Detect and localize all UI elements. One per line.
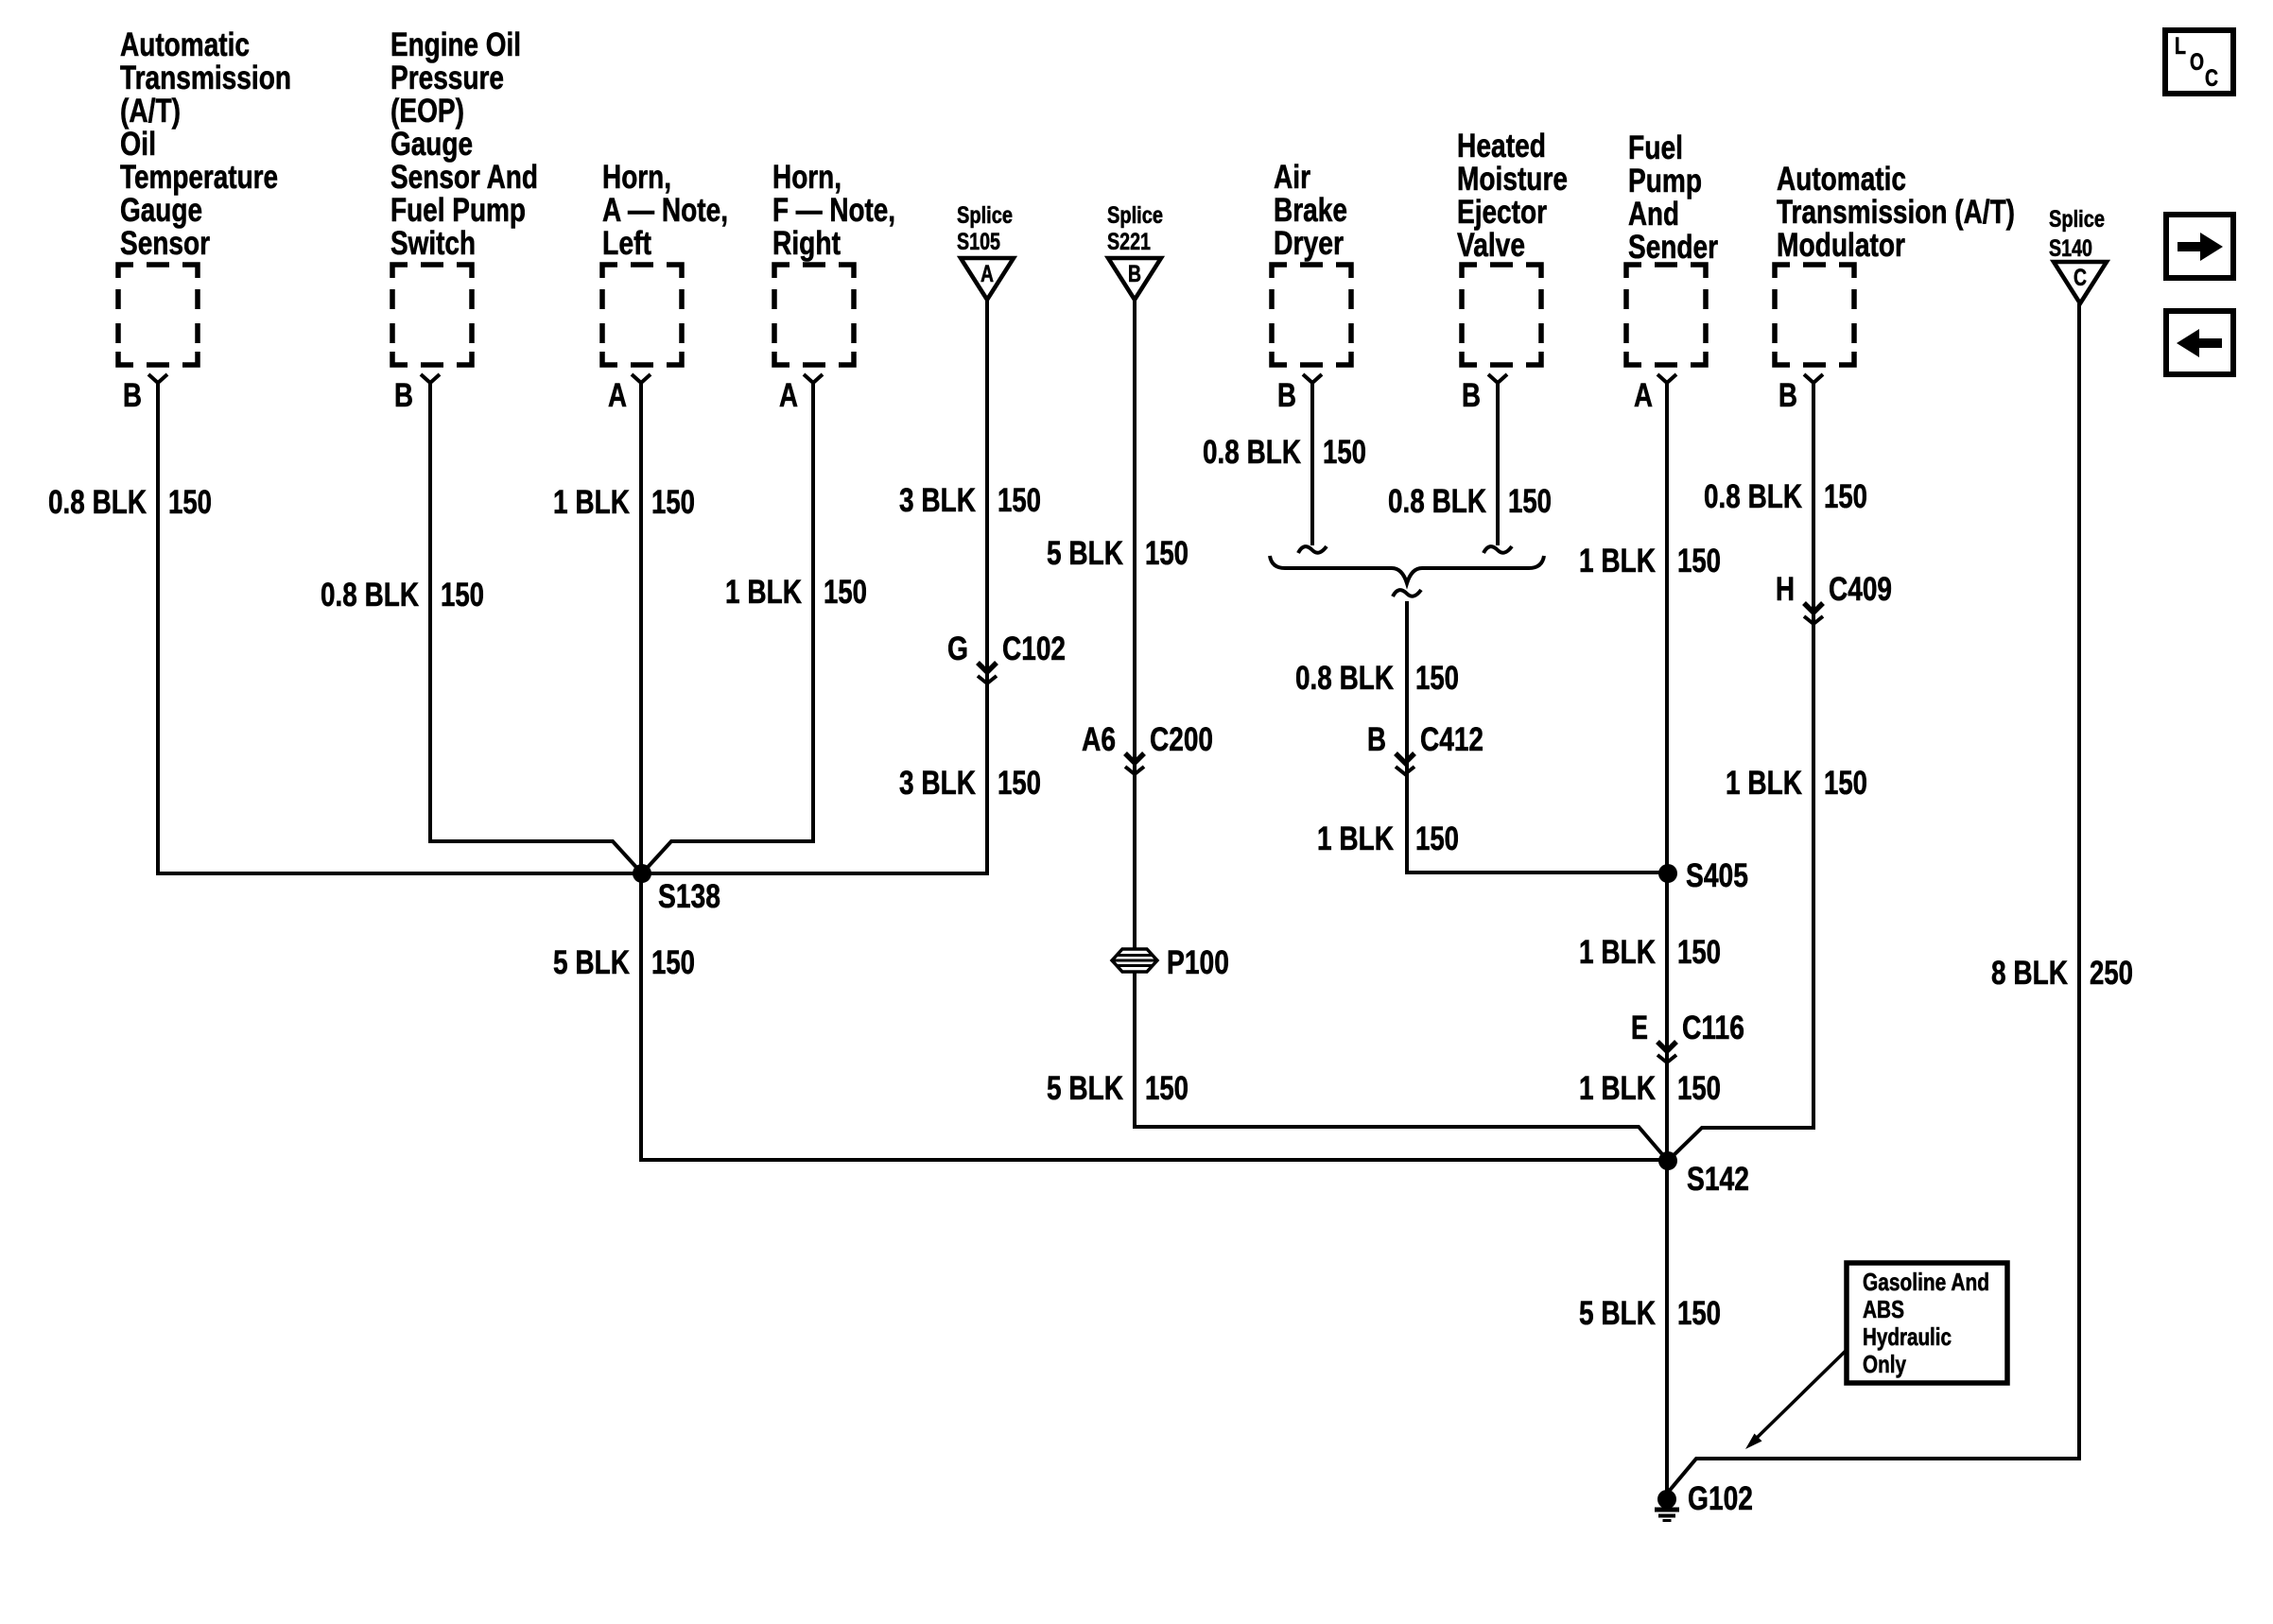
- svg-text:0.8 BLK: 0.8 BLK: [1388, 483, 1486, 520]
- svg-text:Splice: Splice: [2049, 206, 2105, 233]
- svg-text:150: 150: [1824, 765, 1867, 802]
- svg-text:150: 150: [441, 577, 484, 613]
- svg-text:Switch: Switch: [390, 225, 476, 262]
- wire label 5 BLK 150 (S221 lower): [1047, 1070, 1189, 1107]
- svg-text:Engine Oil: Engine Oil: [390, 26, 521, 63]
- svg-text:C: C: [2073, 265, 2087, 291]
- wire label 1 BLK 150 (below S405): [1579, 934, 1721, 971]
- svg-text:A: A: [980, 261, 994, 287]
- svg-text:C102: C102: [1002, 631, 1066, 667]
- component box: heated moisture ejector valve: [1462, 265, 1541, 365]
- svg-text:Gauge: Gauge: [120, 192, 202, 229]
- svg-text:Horn,: Horn,: [772, 159, 842, 196]
- svg-text:And: And: [1628, 196, 1679, 233]
- tilde break at moisture ejector valve wire end: [1484, 546, 1512, 553]
- pin terminal col 1: [148, 374, 167, 383]
- svg-text:G102: G102: [1688, 1480, 1753, 1517]
- wire label 1 BLK 150 (col4): [725, 574, 867, 611]
- svg-text:150: 150: [1824, 478, 1867, 515]
- svg-text:150: 150: [998, 482, 1041, 519]
- svg-text:Sensor And: Sensor And: [390, 159, 538, 196]
- svg-text:B: B: [1128, 261, 1141, 287]
- wire: A/T oil temp sensor ground to S138 and up to splice S105: [158, 300, 987, 873]
- component box: A/T oil temperature gauge sensor: [118, 265, 198, 365]
- svg-text:150: 150: [1677, 934, 1721, 971]
- wire: moisture ejector valve ground stub: [1496, 383, 1500, 545]
- splice S105 triangle: [961, 258, 1014, 300]
- svg-text:150: 150: [1323, 434, 1366, 471]
- wire label 0.8 BLK 150 (col2): [321, 577, 484, 613]
- svg-text:S140: S140: [2049, 235, 2092, 262]
- wire label 5 BLK 150 (to G102): [1579, 1295, 1721, 1332]
- wire label 0.8 BLK 150 (ejector valve): [1388, 483, 1552, 520]
- component box: horn F-note right: [774, 265, 854, 365]
- note box: Gasoline And ABS Hydraulic Only: [1847, 1263, 2007, 1383]
- svg-text:B: B: [1367, 721, 1386, 758]
- pin terminal col 3: [632, 374, 651, 383]
- wire label 1 BLK 150 (fuel pump upper): [1579, 543, 1721, 579]
- svg-text:150: 150: [1508, 483, 1552, 520]
- svg-text:C412: C412: [1420, 721, 1484, 758]
- svg-text:P100: P100: [1167, 944, 1229, 981]
- connector C409 pin H: [1776, 571, 1892, 624]
- svg-text:S105: S105: [957, 229, 1000, 255]
- legend: right-arrow box: [2166, 215, 2233, 278]
- svg-text:150: 150: [998, 765, 1041, 802]
- wire label 1 BLK 150 (modulator lower): [1726, 765, 1867, 802]
- label: Horn A-Note Left: [602, 159, 728, 262]
- svg-text:0.8 BLK: 0.8 BLK: [321, 577, 419, 613]
- legend: LOC box: [2165, 30, 2233, 94]
- wire label 0.8 BLK 150 (modulator upper): [1704, 478, 1867, 515]
- svg-text:A — Note,: A — Note,: [602, 192, 728, 229]
- svg-text:250: 250: [2090, 955, 2133, 992]
- label: Heated Moisture Ejector Valve: [1457, 128, 1568, 264]
- svg-text:Pressure: Pressure: [390, 60, 504, 96]
- wire: combined dryer/ejector ground through C412 to S405: [1407, 601, 1668, 872]
- label: Splice S140: [2049, 206, 2105, 262]
- svg-text:F — Note,: F — Note,: [772, 192, 895, 229]
- pin terminal col 2: [421, 374, 440, 383]
- svg-text:Gauge: Gauge: [390, 126, 473, 163]
- svg-text:5 BLK: 5 BLK: [1047, 535, 1123, 572]
- connector C200 pin A6: [1082, 721, 1213, 774]
- svg-text:H: H: [1776, 571, 1795, 608]
- svg-text:(EOP): (EOP): [390, 93, 464, 130]
- svg-text:0.8 BLK: 0.8 BLK: [1203, 434, 1301, 471]
- component box: fuel pump and sender: [1626, 265, 1706, 365]
- connector C412 pin B: [1367, 721, 1484, 774]
- legend: left-arrow box: [2166, 311, 2233, 374]
- svg-text:A: A: [1634, 377, 1653, 414]
- svg-text:Temperature: Temperature: [120, 159, 278, 196]
- svg-text:(A/T): (A/T): [120, 93, 181, 130]
- svg-text:Gasoline And: Gasoline And: [1863, 1268, 1989, 1296]
- svg-text:150: 150: [651, 484, 695, 521]
- note arrow pointing to G102 wire: [1755, 1350, 1847, 1440]
- wire label 0.8 BLK 150 (dryer): [1203, 434, 1366, 471]
- svg-text:Right: Right: [772, 225, 841, 262]
- svg-text:1 BLK: 1 BLK: [1317, 821, 1394, 857]
- svg-text:1 BLK: 1 BLK: [1579, 934, 1656, 971]
- svg-text:0.8 BLK: 0.8 BLK: [1295, 660, 1394, 697]
- svg-text:Dryer: Dryer: [1274, 225, 1344, 262]
- svg-text:150: 150: [1415, 821, 1459, 857]
- svg-text:150: 150: [651, 944, 695, 981]
- svg-text:C200: C200: [1150, 721, 1213, 758]
- component box: A/T modulator: [1775, 265, 1854, 365]
- svg-text:C409: C409: [1829, 571, 1892, 608]
- svg-text:S405: S405: [1686, 857, 1748, 894]
- label: A/T Oil Temperature Gauge Sensor: [120, 26, 291, 262]
- wire label 3 BLK 150 (S105 upper): [899, 482, 1041, 519]
- svg-text:S138: S138: [658, 878, 720, 915]
- label: Fuel Pump And Sender: [1628, 130, 1718, 266]
- svg-text:Air: Air: [1274, 159, 1310, 196]
- connector C102 pin G: [947, 631, 1066, 683]
- wire: horn left ground through S138 down to S142: [641, 383, 1668, 1160]
- wire label 0.8 BLK 150 (col1): [48, 484, 212, 521]
- svg-text:1 BLK: 1 BLK: [725, 574, 802, 611]
- component box: EOP gauge sensor and fuel pump switch: [392, 265, 472, 365]
- wire: fuel pump ground trunk through S405 S142 to G102: [1665, 383, 1669, 1499]
- svg-text:Valve: Valve: [1457, 227, 1525, 264]
- label: A/T Modulator: [1777, 161, 2015, 264]
- svg-text:3 BLK: 3 BLK: [899, 482, 976, 519]
- svg-text:S142: S142: [1687, 1161, 1749, 1198]
- svg-text:E: E: [1631, 1010, 1648, 1046]
- splice S140 triangle: [2054, 262, 2107, 303]
- label: Air Brake Dryer: [1274, 159, 1347, 262]
- svg-text:1 BLK: 1 BLK: [1726, 765, 1802, 802]
- pin terminal col 4: [804, 374, 823, 383]
- wire: horn right ground to S138: [642, 383, 813, 873]
- svg-text:B: B: [123, 377, 142, 414]
- svg-text:150: 150: [1145, 535, 1189, 572]
- svg-text:B: B: [1462, 377, 1481, 414]
- svg-text:Transmission: Transmission: [120, 60, 291, 96]
- ground junction G102: [1657, 1490, 1676, 1509]
- svg-text:Left: Left: [602, 225, 651, 262]
- harness bundle brace joining dryer and ejector grounds: [1270, 556, 1544, 583]
- svg-text:Oil: Oil: [120, 126, 156, 163]
- svg-text:A: A: [608, 377, 627, 414]
- svg-text:Brake: Brake: [1274, 192, 1347, 229]
- svg-text:O: O: [2190, 49, 2204, 76]
- connector C116 pin E: [1631, 1010, 1744, 1063]
- svg-text:5 BLK: 5 BLK: [1047, 1070, 1123, 1107]
- wire label 5 BLK 150 (S221 upper): [1047, 535, 1189, 572]
- svg-text:Transmission (A/T): Transmission (A/T): [1777, 194, 2015, 231]
- svg-text:C: C: [2205, 65, 2218, 92]
- pin terminal col 7: [1657, 374, 1676, 383]
- wire label 3 BLK 150 (S105 lower): [899, 765, 1041, 802]
- component box: horn A-note left: [602, 265, 682, 365]
- svg-text:3 BLK: 3 BLK: [899, 765, 976, 802]
- svg-text:150: 150: [1145, 1070, 1189, 1107]
- svg-text:150: 150: [1677, 1295, 1721, 1332]
- tilde break at air brake dryer wire end: [1298, 546, 1327, 553]
- svg-text:1 BLK: 1 BLK: [1579, 1070, 1656, 1107]
- svg-text:1 BLK: 1 BLK: [1579, 543, 1656, 579]
- wire: splice S140 8 BLK to G102: [1667, 303, 2079, 1494]
- svg-text:Fuel Pump: Fuel Pump: [390, 192, 526, 229]
- svg-text:1 BLK: 1 BLK: [553, 484, 630, 521]
- splice junction S405: [1658, 864, 1677, 883]
- wire label 1 BLK 150 (below C116): [1579, 1070, 1721, 1107]
- svg-text:150: 150: [168, 484, 212, 521]
- svg-text:Heated: Heated: [1457, 128, 1546, 164]
- ground symbol G102: [1655, 1508, 1679, 1512]
- label: Splice S105: [957, 202, 1013, 255]
- svg-text:Pump: Pump: [1628, 163, 1702, 199]
- label: EOP Gauge Sensor And Fuel Pump Switch: [390, 26, 538, 262]
- svg-text:Sender: Sender: [1628, 229, 1718, 266]
- svg-text:Horn,: Horn,: [602, 159, 671, 196]
- svg-text:ABS: ABS: [1863, 1295, 1904, 1323]
- wire label 8 BLK 250 (S140): [1991, 955, 2133, 992]
- splice junction S138: [633, 864, 651, 883]
- svg-text:A6: A6: [1082, 721, 1116, 758]
- svg-text:0.8 BLK: 0.8 BLK: [48, 484, 147, 521]
- grommet P100: [1112, 949, 1157, 972]
- svg-text:Splice: Splice: [1107, 202, 1163, 229]
- svg-text:Automatic: Automatic: [1777, 161, 1906, 198]
- wire: EOP switch ground to S138: [430, 383, 642, 873]
- wire label 1 BLK 150 (combined lower): [1317, 821, 1459, 857]
- wire: air brake dryer ground stub: [1310, 383, 1314, 545]
- svg-text:Fuel: Fuel: [1628, 130, 1683, 166]
- label: Splice S221: [1107, 202, 1163, 255]
- svg-text:5 BLK: 5 BLK: [553, 944, 630, 981]
- svg-text:A: A: [779, 377, 798, 414]
- svg-text:B: B: [394, 377, 413, 414]
- svg-text:150: 150: [1677, 1070, 1721, 1107]
- svg-text:5 BLK: 5 BLK: [1579, 1295, 1656, 1332]
- svg-text:S221: S221: [1107, 229, 1151, 255]
- tilde at start of combined ground wire: [1393, 590, 1421, 596]
- svg-text:150: 150: [824, 574, 867, 611]
- splice junction S142: [1658, 1151, 1677, 1170]
- svg-text:150: 150: [1677, 543, 1721, 579]
- svg-text:Moisture: Moisture: [1457, 161, 1568, 198]
- pin terminal col 6: [1488, 374, 1507, 383]
- label: Horn F-Note Right: [772, 159, 895, 262]
- svg-text:Ejector: Ejector: [1457, 194, 1547, 231]
- pin terminal col 5: [1303, 374, 1322, 383]
- svg-text:B: B: [1277, 377, 1296, 414]
- wire: splice S221 through C200 and P100 to S142: [1135, 300, 1668, 1161]
- svg-text:G: G: [947, 631, 968, 667]
- svg-text:Modulator: Modulator: [1777, 227, 1905, 264]
- wire: A/T modulator ground through C409 to S142: [1668, 383, 1813, 1161]
- splice S221 triangle: [1108, 258, 1161, 300]
- svg-text:C116: C116: [1682, 1010, 1744, 1046]
- svg-text:Splice: Splice: [957, 202, 1013, 229]
- svg-text:Sensor: Sensor: [120, 225, 210, 262]
- wire label 5 BLK 150 (below S138): [553, 944, 695, 981]
- svg-text:Hydraulic: Hydraulic: [1863, 1322, 1952, 1351]
- svg-text:150: 150: [1415, 660, 1459, 697]
- svg-text:8 BLK: 8 BLK: [1991, 955, 2068, 992]
- svg-text:Automatic: Automatic: [120, 26, 250, 63]
- component box: air brake dryer: [1272, 265, 1351, 365]
- svg-text:L: L: [2175, 33, 2186, 60]
- wire label 1 BLK 150 (col3): [553, 484, 695, 521]
- svg-text:B: B: [1778, 377, 1797, 414]
- svg-text:0.8 BLK: 0.8 BLK: [1704, 478, 1802, 515]
- wire label 0.8 BLK 150 (combined): [1295, 660, 1459, 697]
- svg-text:Only: Only: [1863, 1350, 1906, 1378]
- pin terminal col 8: [1804, 374, 1823, 383]
